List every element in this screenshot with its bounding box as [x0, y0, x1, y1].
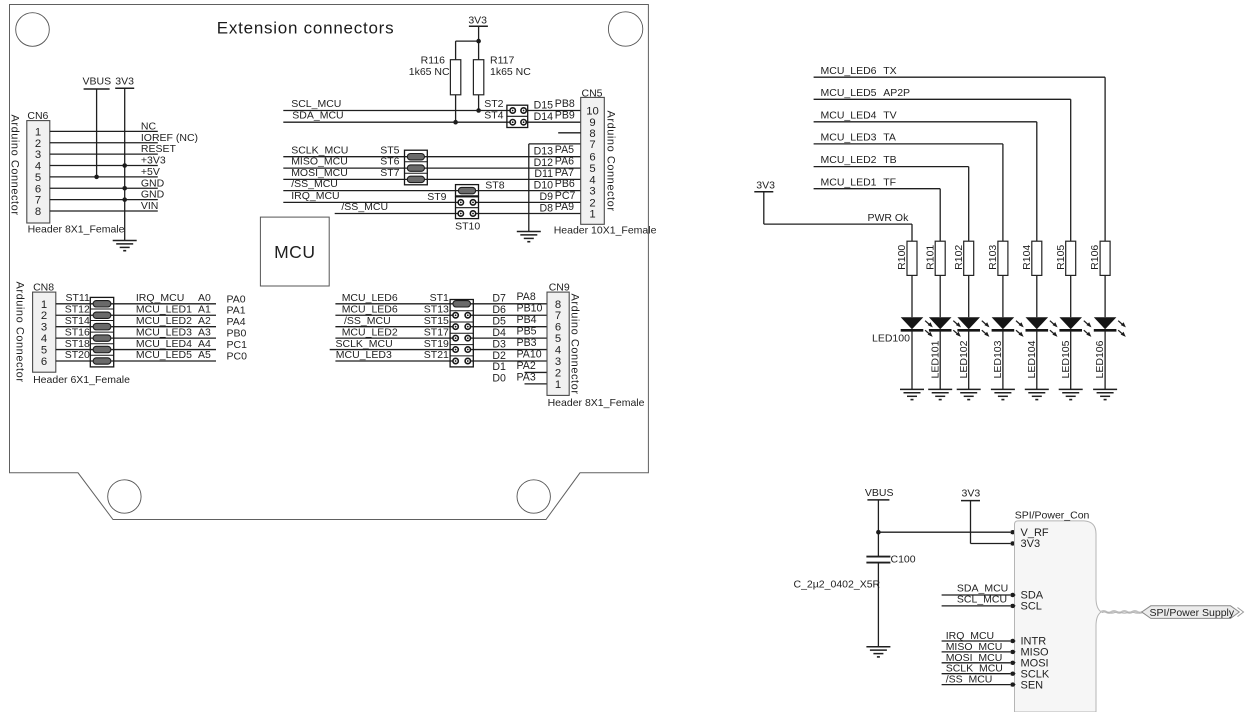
svg-text:5: 5 — [589, 163, 595, 175]
capacitor C100 — [866, 553, 915, 565]
svg-text:D12: D12 — [534, 157, 554, 169]
jumper ST4 pads — [507, 120, 528, 125]
svg-text:+3V3: +3V3 — [141, 155, 166, 167]
wire LED103 to ground — [1002, 330, 1004, 389]
net /SS_MCU wire to SEN pin — [942, 674, 1044, 692]
svg-text:D4: D4 — [492, 327, 506, 339]
svg-text:D1: D1 — [492, 361, 506, 373]
svg-text:RESET: RESET — [141, 143, 177, 155]
pin 3V3 label — [1021, 538, 1041, 550]
wire C100 to ground — [877, 563, 879, 647]
svg-text:Arduino Connector: Arduino Connector — [8, 114, 20, 215]
CN9 row SCLK_MCU wire ST19 — [330, 338, 547, 350]
resistor R106 — [1089, 241, 1110, 275]
CN9 row MCU_LED6 wire ST13 — [335, 303, 547, 315]
svg-text:SDA_MCU: SDA_MCU — [292, 110, 343, 122]
svg-text:3: 3 — [35, 149, 41, 161]
svg-text:Header 8X1_Female: Header 8X1_Female — [548, 397, 645, 409]
svg-text:LED104: LED104 — [1026, 340, 1038, 378]
svg-text:MCU_LED2: MCU_LED2 — [136, 315, 192, 327]
CN5 label D9 PC7 — [539, 190, 575, 203]
mounting hole bottom-right — [517, 480, 550, 513]
svg-text:7: 7 — [589, 139, 595, 151]
power symbol 3V3 bottom — [961, 487, 980, 500]
svg-text:MCU_LED3: MCU_LED3 — [336, 349, 392, 361]
svg-text:5: 5 — [41, 345, 47, 357]
jumper ST16 closed — [90, 335, 113, 341]
svg-text:R117: R117 — [490, 55, 514, 67]
net SCLK_MCU wire — [283, 144, 580, 156]
svg-text:MCU: MCU — [274, 242, 315, 262]
svg-text:3V3: 3V3 — [468, 14, 487, 26]
svg-text:PA9: PA9 — [555, 201, 574, 213]
svg-text:VBUS: VBUS — [865, 487, 894, 499]
wire R104 to LED104 — [1036, 275, 1038, 317]
svg-text:PA8: PA8 — [517, 291, 536, 303]
svg-text:PB4: PB4 — [517, 314, 537, 326]
svg-text:ST20: ST20 — [65, 349, 90, 361]
board outline — [10, 5, 649, 520]
LED LED105 — [1059, 317, 1091, 337]
label LED101 — [929, 340, 941, 378]
svg-text:PA3: PA3 — [517, 371, 536, 383]
jumper ST17 pads — [450, 335, 473, 340]
power symbol 3V3 for PWR Ok — [754, 179, 775, 191]
resistor R102 — [953, 241, 974, 275]
svg-text:/SS_MCU: /SS_MCU — [344, 315, 391, 327]
CN8 Arduino Connector vertical label — [13, 281, 25, 382]
CN5 pin8 stub wire — [558, 132, 581, 134]
capacitor C100 value — [794, 579, 881, 591]
jumper ST15 pads — [450, 324, 473, 329]
svg-text:Arduino Connector: Arduino Connector — [13, 281, 25, 382]
CN5 pin 4 number — [589, 174, 595, 186]
LED LED104 — [1026, 317, 1058, 337]
CN6 pin 3 wire and label RESET — [35, 143, 177, 161]
svg-text:D2: D2 — [492, 350, 506, 362]
CN5 label D15 PB8 — [534, 98, 575, 111]
svg-text:10: 10 — [586, 106, 599, 118]
svg-text:GND: GND — [141, 189, 165, 201]
svg-text:ST1: ST1 — [430, 292, 449, 304]
net MCU_LED6 TX wire to R106 — [814, 65, 1106, 241]
svg-text:PB6: PB6 — [555, 178, 575, 190]
junction dot VBUS/V_RF — [876, 530, 881, 535]
svg-text:A3: A3 — [198, 326, 211, 338]
jumper ST5/6/7 box — [405, 150, 428, 185]
net /SS_MCU wire — [283, 178, 580, 190]
resistor R100 — [896, 241, 917, 275]
CN6 pin 6 wire and label GND — [35, 177, 165, 195]
CN9 label D0 PA3 — [492, 371, 535, 384]
jumper ST8 box — [456, 185, 479, 196]
LED LED100 — [901, 317, 933, 337]
power symbol VBUS bottom — [865, 487, 894, 500]
svg-text:GND: GND — [141, 177, 165, 189]
svg-text:ST9: ST9 — [427, 191, 446, 203]
svg-text:LED100: LED100 — [872, 333, 910, 345]
svg-text:8: 8 — [555, 299, 561, 311]
svg-text:PA1: PA1 — [227, 305, 246, 317]
CN8 pin 3 wire, net MCU_LED2 A2 PA4 — [41, 315, 246, 334]
net MCU_LED1 TF wire to R101 — [814, 176, 941, 241]
svg-text:D15: D15 — [534, 99, 554, 111]
jumper ST19 pads — [450, 347, 473, 352]
net MOSI_MCU wire to MOSI pin — [942, 652, 1049, 670]
wire R103 to LED103 — [1002, 275, 1004, 317]
connector CN6 body — [27, 121, 50, 223]
svg-text:D5: D5 — [492, 315, 506, 327]
resistor R105 — [1055, 241, 1076, 275]
svg-text:R116: R116 — [421, 55, 445, 67]
net SDA_MCU wire — [283, 110, 580, 123]
CN6 pin 8 wire and label VIN — [35, 200, 159, 218]
svg-text:SPI/Power Supply: SPI/Power Supply — [1150, 607, 1235, 619]
svg-text:D8: D8 — [539, 202, 553, 214]
CN9 pin 5 number — [555, 333, 561, 345]
wire 3V3 down — [478, 26, 480, 110]
svg-text:D11: D11 — [534, 168, 553, 180]
svg-text:PA10: PA10 — [517, 348, 542, 360]
svg-text:SCL_MCU: SCL_MCU — [957, 593, 1007, 605]
CN9 row MCU_LED2 wire ST17 — [335, 326, 547, 338]
svg-text:ST19: ST19 — [424, 338, 449, 350]
svg-text:PB9: PB9 — [555, 110, 575, 122]
svg-text:6: 6 — [555, 322, 561, 334]
label LED105 — [1060, 340, 1072, 378]
svg-text:MCU_LED3: MCU_LED3 — [136, 326, 192, 338]
CN6 pin 2 wire and label IOREF (NC) — [35, 132, 198, 150]
svg-text:SCL: SCL — [1021, 601, 1042, 613]
svg-text:IRQ_MCU: IRQ_MCU — [136, 292, 184, 304]
CN5 label D10 PB6 — [534, 178, 575, 191]
jumper ST2/ST4 labels — [484, 98, 503, 122]
ground below LED101 — [928, 389, 952, 399]
svg-text:1: 1 — [35, 126, 41, 138]
svg-text:ST16: ST16 — [65, 326, 90, 338]
svg-text:/SS_MCU: /SS_MCU — [291, 178, 338, 190]
CN5 pin 10 number — [586, 106, 599, 118]
CN5 pin 8 number — [589, 128, 595, 140]
svg-text:/SS_MCU: /SS_MCU — [946, 674, 993, 686]
CN6 pin 1 wire and label NC — [35, 120, 158, 138]
jumper ST9/ST10 box — [456, 197, 479, 219]
junction dot 3V3 split — [476, 39, 481, 44]
svg-text:VBUS: VBUS — [83, 76, 112, 88]
off-page tag SPI/Power Supply — [1142, 606, 1244, 619]
jumper ST20 closed — [90, 358, 113, 364]
svg-text:MCU_LED6: MCU_LED6 — [821, 65, 877, 77]
CN5 pin 9 number — [589, 117, 595, 129]
svg-text:ST11: ST11 — [65, 292, 89, 304]
wire VBUS vertical to CN6 pin5 — [96, 89, 98, 177]
jumper ST18 closed — [90, 346, 113, 352]
ground below LED100 — [900, 389, 924, 399]
net IRQ_MCU wire to INTR pin — [942, 630, 1047, 648]
svg-text:2: 2 — [35, 138, 41, 150]
label LED106 — [1094, 340, 1106, 378]
svg-text:PA2: PA2 — [517, 360, 536, 372]
resistor R117 — [473, 55, 531, 95]
CN9 label D3 PB3 — [492, 337, 536, 350]
svg-text:V_RF: V_RF — [1021, 527, 1049, 539]
junction dot GND / CN6 pin6 — [122, 186, 127, 191]
svg-text:D6: D6 — [492, 304, 506, 316]
svg-text:A1: A1 — [198, 303, 211, 315]
off-page squiggle wire — [1101, 611, 1143, 613]
CN5 label D14 PB9 — [534, 110, 575, 123]
svg-text:MCU_LED4: MCU_LED4 — [136, 338, 192, 350]
svg-text:PC0: PC0 — [227, 351, 248, 363]
net MCU_LED4 TV wire to R104 — [814, 109, 1037, 241]
svg-text:ST7: ST7 — [380, 167, 399, 179]
jumper ST11 closed — [90, 301, 113, 307]
wire LED100 to ground — [911, 330, 913, 389]
jumper ST10 pads — [455, 211, 480, 233]
svg-text:1: 1 — [555, 379, 561, 391]
wire LED105 to ground — [1070, 330, 1072, 389]
svg-text:MISO_MCU: MISO_MCU — [291, 156, 348, 168]
junction dot R116 to SDA — [453, 120, 458, 125]
CN9 Arduino Connector vertical label — [569, 293, 581, 394]
wire R101 to LED101 — [939, 275, 941, 317]
wire LED106 to ground — [1104, 330, 1106, 389]
svg-text:LED102: LED102 — [958, 340, 970, 378]
svg-text:2: 2 — [41, 310, 47, 322]
svg-text:1k65 NC: 1k65 NC — [490, 66, 531, 78]
svg-text:Arduino Connector: Arduino Connector — [569, 293, 581, 394]
connector CN6 label — [27, 110, 48, 122]
svg-text:A0: A0 — [198, 292, 211, 304]
svg-text:R104: R104 — [1021, 245, 1033, 270]
CN8 pin 4 wire, net MCU_LED3 A3 PB0 — [41, 326, 247, 345]
svg-text:ST18: ST18 — [65, 338, 90, 350]
jumper ST8 closed — [456, 179, 505, 193]
junction dot R117 to SCL — [476, 108, 481, 113]
net MCU_LED3 TA wire to R103 — [814, 132, 1003, 242]
svg-text:NC: NC — [141, 120, 157, 132]
svg-text:3V3: 3V3 — [756, 179, 775, 191]
svg-text:MOSI_MCU: MOSI_MCU — [291, 167, 348, 179]
svg-text:PB8: PB8 — [555, 98, 575, 110]
svg-text:2: 2 — [555, 367, 561, 379]
connector CN8 label — [33, 281, 54, 293]
CN5 Arduino Connector vertical label — [605, 110, 617, 211]
svg-text:+5V: +5V — [141, 166, 160, 178]
resistor R116 — [409, 55, 461, 95]
net MOSI_MCU wire — [283, 167, 580, 179]
svg-text:PA5: PA5 — [555, 144, 574, 156]
title Extension connectors — [217, 19, 395, 38]
svg-text:PB3: PB3 — [517, 337, 537, 349]
CN5 label D8 PA9 — [539, 201, 574, 214]
net IRQ_MCU wire — [283, 190, 580, 202]
svg-text:LED101: LED101 — [929, 340, 941, 378]
CN5 label D11 PA7 — [534, 167, 574, 180]
jumper ST14 closed — [90, 323, 113, 329]
jumper box ST1-ST21 — [450, 300, 473, 367]
svg-text:4: 4 — [589, 174, 595, 186]
CN9 label D7 PA8 — [492, 291, 535, 304]
svg-text:3V3: 3V3 — [115, 75, 134, 87]
svg-text:CN8: CN8 — [33, 281, 54, 293]
CN9 pin 2 number — [555, 367, 561, 379]
CN5 pin 5 number — [589, 163, 595, 175]
resistor R104 — [1021, 241, 1042, 275]
svg-text:C_2µ2_0402_X5R: C_2µ2_0402_X5R — [794, 579, 881, 591]
svg-text:SPI/Power_Con: SPI/Power_Con — [1015, 509, 1090, 521]
wire R100 to LED100 — [911, 275, 913, 317]
power symbol VBUS — [83, 76, 112, 89]
CN6 part name Header 8X1_Female — [28, 224, 125, 236]
connector CN9 body — [547, 292, 569, 395]
net SCLK_MCU wire to SCLK pin — [942, 663, 1050, 681]
svg-text:D7: D7 — [492, 293, 506, 305]
CN8 pin 5 wire, net MCU_LED4 A4 PC1 — [41, 338, 247, 357]
svg-text:IOREF (NC): IOREF (NC) — [141, 132, 198, 144]
svg-text:ST4: ST4 — [484, 110, 503, 122]
wire 3V3 vertical to CN6 and ground — [124, 88, 126, 240]
svg-text:D14: D14 — [534, 111, 554, 123]
svg-text:7: 7 — [35, 195, 41, 207]
svg-text:TA: TA — [883, 132, 896, 144]
svg-text:SEN: SEN — [1021, 679, 1044, 691]
connector CN8 body — [33, 292, 56, 372]
LED LED106 — [1094, 317, 1126, 337]
svg-text:PB5: PB5 — [517, 326, 537, 338]
label LED100 — [872, 333, 910, 345]
ground below LED102 — [957, 389, 981, 399]
svg-text:Header 10X1_Female: Header 10X1_Female — [554, 225, 657, 237]
CN9 row MCU_LED3 wire ST21 — [335, 349, 547, 361]
CN9 label D4 PB5 — [492, 326, 536, 339]
resistor R103 — [987, 241, 1008, 275]
wire LED102 to ground — [968, 330, 970, 389]
wire R105 to LED105 — [1070, 275, 1072, 317]
net /SS_MCU second wire — [335, 201, 581, 213]
connector CN5 label — [582, 87, 603, 99]
svg-text:Extension connectors: Extension connectors — [217, 19, 395, 38]
wire VBUS to C100 — [877, 500, 879, 556]
CN6 pin 5 wire and label +5V — [35, 166, 160, 184]
jumper ST13 pads — [450, 313, 473, 318]
jumper ST1 closed — [450, 301, 473, 307]
svg-text:Arduino Connector: Arduino Connector — [605, 110, 617, 211]
ground below LED106 — [1093, 389, 1117, 399]
jumper ST12 closed — [90, 312, 113, 318]
ground below LED105 — [1059, 389, 1083, 399]
junction dot VBUS / CN6 pin5 — [94, 175, 99, 180]
svg-text:TF: TF — [883, 176, 896, 188]
wire V_RF — [878, 530, 1016, 534]
svg-text:MCU_LED4: MCU_LED4 — [821, 109, 877, 121]
svg-text:1: 1 — [41, 299, 47, 311]
svg-text:MCU_LED2: MCU_LED2 — [821, 154, 877, 166]
wire R102 to LED102 — [968, 275, 970, 317]
svg-text:ST21: ST21 — [424, 349, 449, 361]
svg-text:TB: TB — [883, 154, 896, 166]
svg-text:R103: R103 — [987, 245, 999, 270]
label LED103 — [992, 340, 1004, 378]
label LED104 — [1026, 340, 1038, 378]
svg-text:PA6: PA6 — [555, 156, 574, 168]
svg-text:3: 3 — [555, 356, 561, 368]
net MISO_MCU wire to MISO pin — [942, 641, 1049, 659]
svg-text:A2: A2 — [198, 315, 211, 327]
junction dot 3V3 / CN6 pin4 — [122, 163, 127, 168]
svg-text:ST2: ST2 — [484, 98, 503, 110]
ground below CN6 — [113, 241, 137, 251]
CN9 label D6 PB10 — [492, 303, 542, 316]
svg-text:C100: C100 — [891, 553, 916, 565]
jumper ST5 closed — [405, 154, 428, 160]
CN5 pin 1 number — [589, 209, 595, 221]
CN9 label D2 PA10 — [492, 348, 541, 361]
svg-text:ST17: ST17 — [424, 326, 449, 338]
svg-text:MCU_LED1: MCU_LED1 — [821, 176, 877, 188]
CN5 label D12 PA6 — [534, 156, 575, 169]
svg-text:AP2P: AP2P — [883, 87, 910, 99]
net MISO_MCU wire — [283, 156, 580, 168]
jumper ST7 closed — [405, 176, 428, 182]
svg-text:MCU_LED6: MCU_LED6 — [342, 303, 398, 315]
svg-text:3: 3 — [41, 322, 47, 334]
svg-text:4: 4 — [35, 161, 41, 173]
CN6 pin 4 wire and label +3V3 — [35, 155, 166, 173]
svg-text:MCU_LED5: MCU_LED5 — [136, 349, 192, 361]
svg-text:R105: R105 — [1055, 245, 1067, 270]
svg-text:PWR Ok: PWR Ok — [868, 212, 910, 224]
svg-text:5: 5 — [555, 333, 561, 345]
CN5 pin 7 number — [589, 139, 595, 151]
power symbol 3V3 — [115, 75, 134, 88]
net MCU_LED5 AP2P wire to R105 — [814, 87, 1071, 241]
svg-text:CN9: CN9 — [549, 281, 570, 293]
svg-text:D13: D13 — [534, 146, 554, 158]
CN8 pin 1 wire, net IRQ_MCU A0 PA0 — [41, 292, 246, 311]
wire LED104 to ground — [1036, 330, 1038, 389]
svg-text:SCL_MCU: SCL_MCU — [291, 98, 341, 110]
CN8 part name Header 6X1_Female — [33, 374, 130, 386]
CN9 pin2 stub wire — [525, 371, 548, 373]
svg-text:D3: D3 — [492, 338, 506, 350]
svg-text:MCU_LED2: MCU_LED2 — [342, 326, 398, 338]
CN9 row MCU_LED6 wire ST1 — [335, 292, 547, 304]
svg-text:ST12: ST12 — [65, 303, 90, 315]
CN9 pin1 stub wire — [525, 383, 548, 385]
wire CN5 pin7 to ground — [529, 144, 581, 232]
svg-text:SCLK_MCU: SCLK_MCU — [336, 338, 393, 350]
svg-text:1k65 NC: 1k65 NC — [409, 66, 450, 78]
svg-text:R106: R106 — [1089, 245, 1101, 270]
svg-text:3V3: 3V3 — [962, 487, 981, 499]
SPI/Power_Con connector shape — [1015, 521, 1102, 712]
svg-text:LED105: LED105 — [1060, 340, 1072, 378]
CN6 Arduino Connector vertical label — [8, 114, 20, 215]
net SCL_MCU wire — [283, 98, 580, 111]
LED LED102 — [957, 317, 989, 337]
svg-text:4: 4 — [555, 345, 561, 357]
CN9 label D5 PB4 — [492, 314, 536, 327]
svg-text:PA4: PA4 — [227, 316, 246, 328]
net SDA_MCU wire to SDA pin — [942, 583, 1044, 602]
CN5 pin 6 number — [589, 152, 595, 164]
svg-text:8: 8 — [35, 206, 41, 218]
svg-text:A5: A5 — [198, 349, 211, 361]
jumper ST9 pads — [427, 191, 478, 205]
svg-text:MCU_LED5: MCU_LED5 — [821, 87, 877, 99]
svg-text:R100: R100 — [896, 245, 908, 270]
